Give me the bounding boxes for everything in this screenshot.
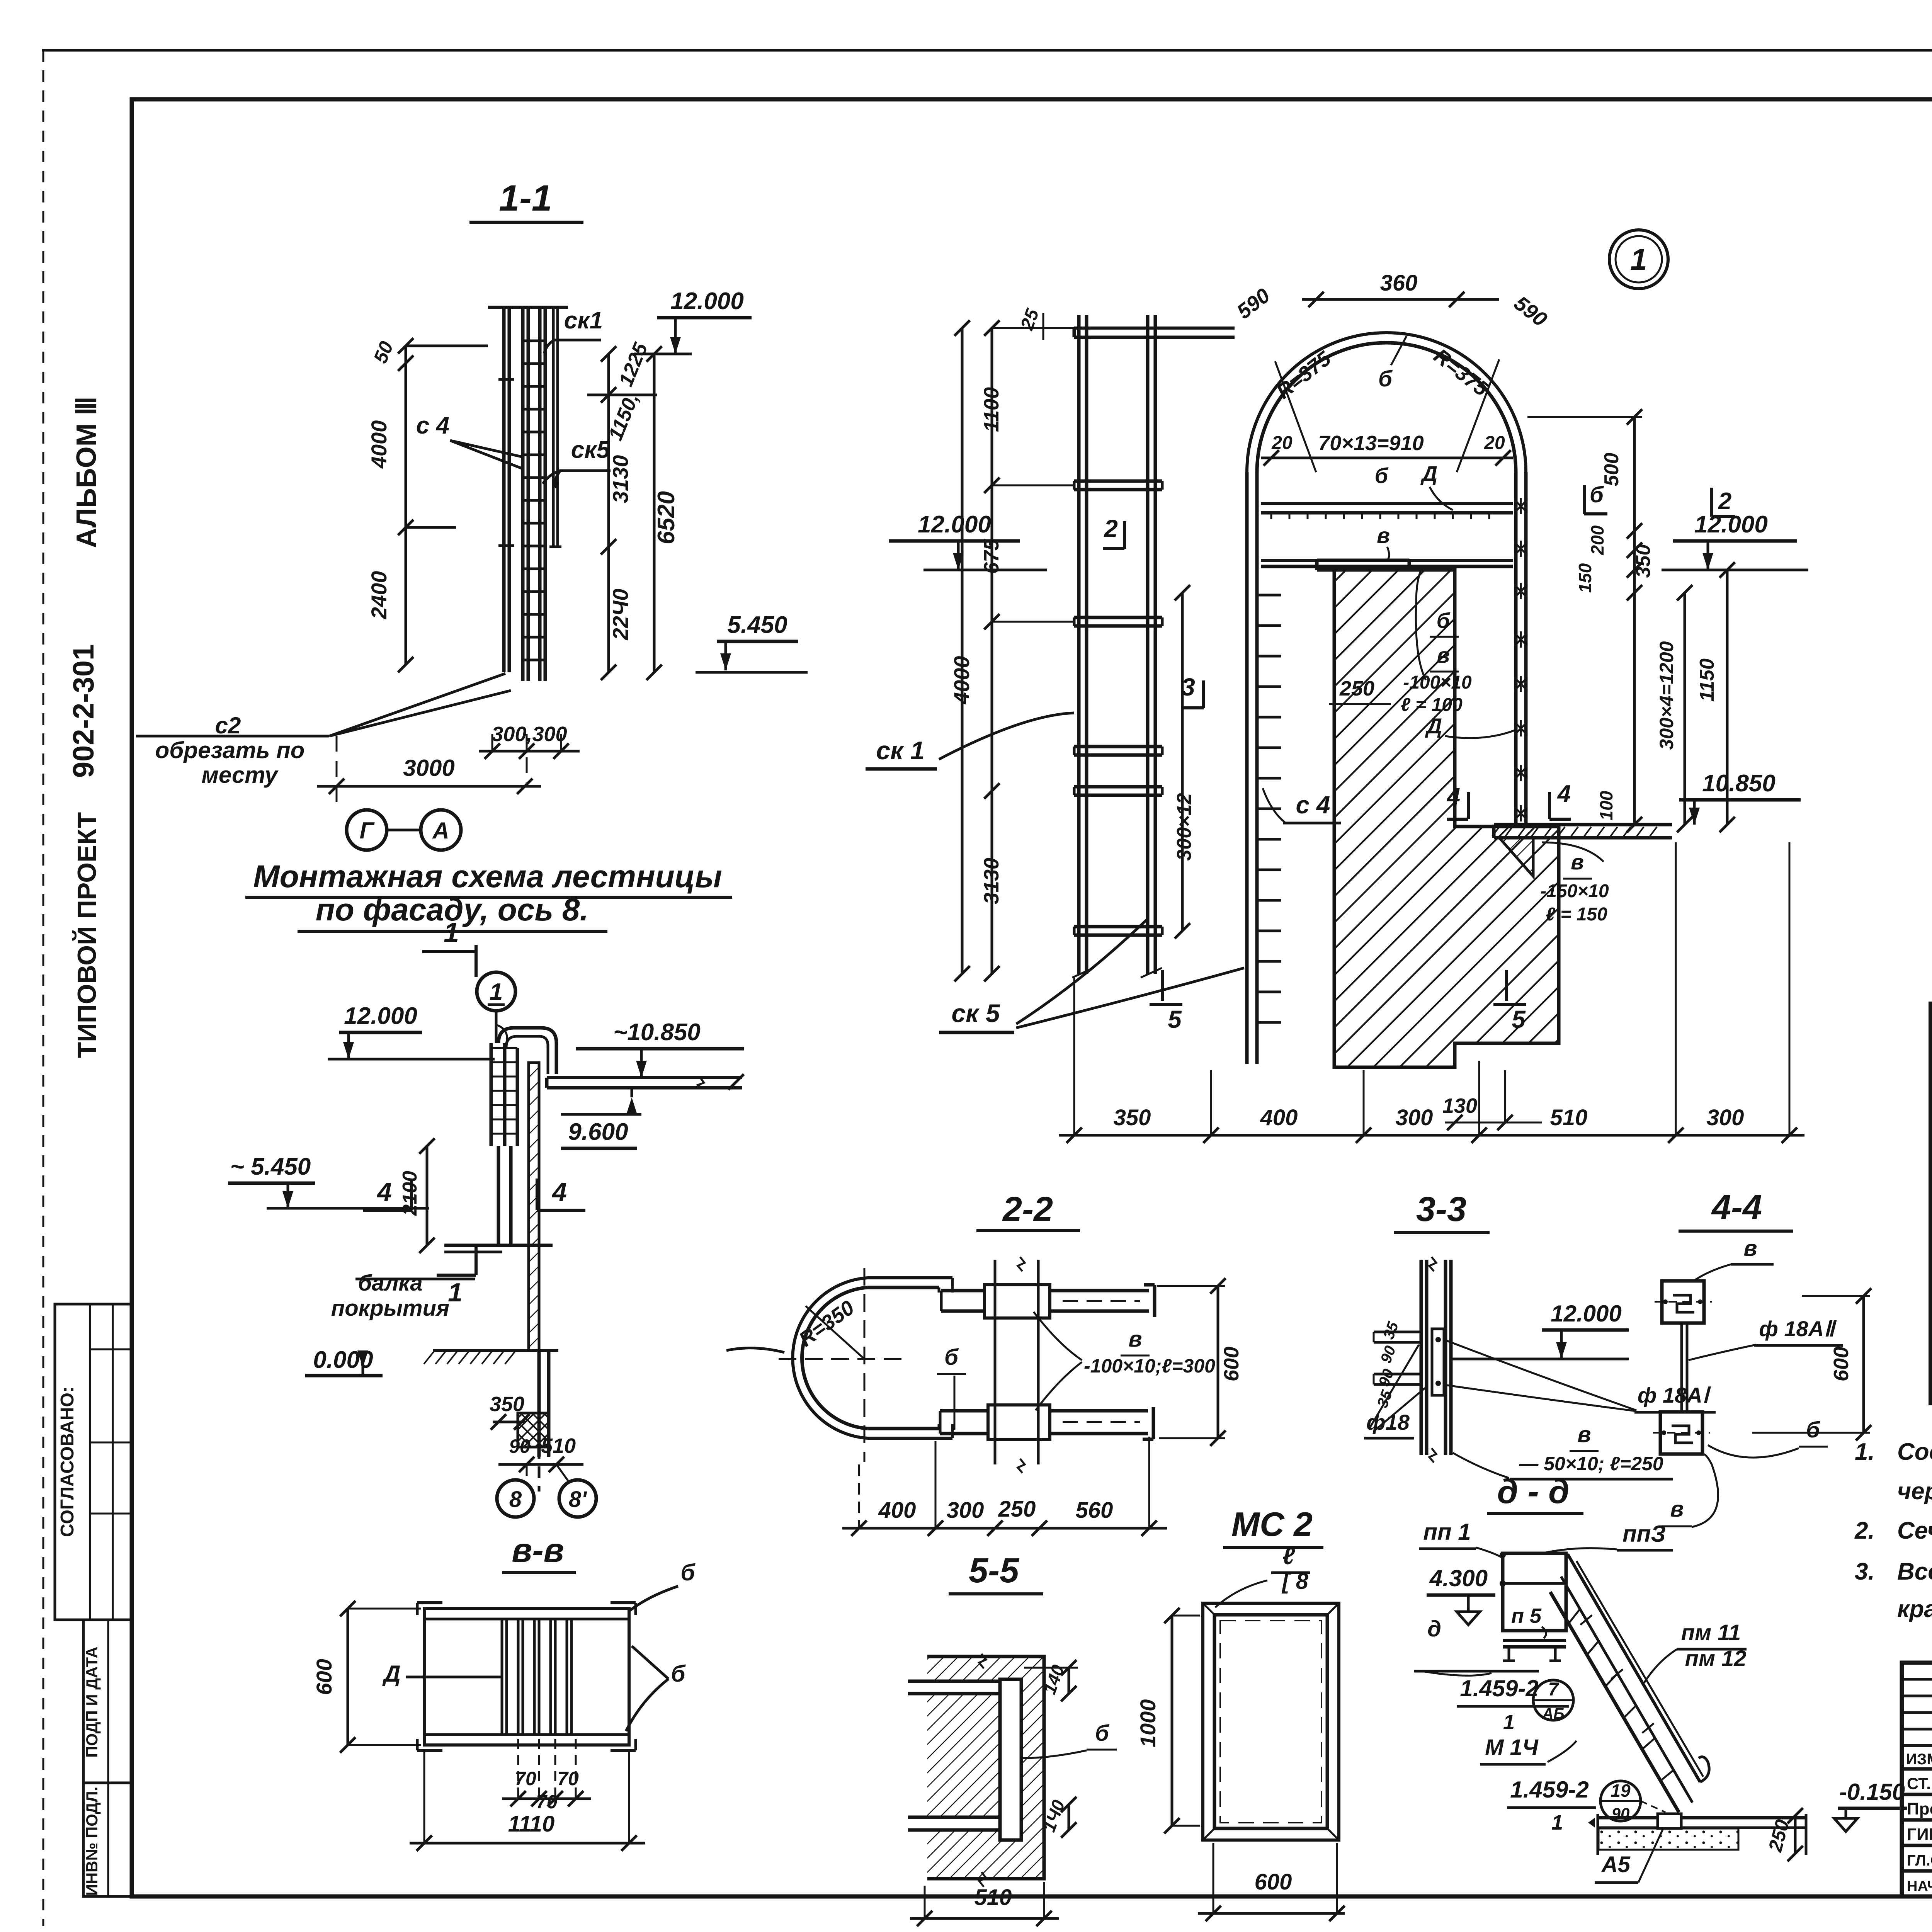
ground line and hatch — [433, 1349, 558, 1352]
4-4 top plate — [1662, 1281, 1704, 1323]
dim 300x12 along rungs — [1181, 593, 1184, 931]
svg-text:Сечение д-д замаркировано на: Сечение д-д замаркировано на листе КЖ- 4… — [1897, 1517, 1932, 1544]
svg-text:Д: Д — [1425, 714, 1442, 738]
svg-text:5.450: 5.450 — [727, 612, 787, 638]
svg-text:ℓ: ℓ — [1282, 1543, 1295, 1570]
svg-text:1000: 1000 — [1136, 1699, 1160, 1748]
svg-text:19: 19 — [1611, 1781, 1631, 1801]
svg-text:4-4: 4-4 — [1711, 1188, 1762, 1227]
svg-text:ск 1: ск 1 — [876, 736, 924, 765]
right dim chain inner — [1633, 417, 1636, 825]
svg-text:~10.850: ~10.850 — [613, 1019, 701, 1046]
elevation platform at 5.450 — [444, 1244, 553, 1247]
ladder 1-1 top cap line — [488, 306, 568, 309]
MC2 frame inner — [1214, 1615, 1327, 1828]
svg-text:-100×10: -100×10 — [1403, 672, 1472, 693]
hatched wall column — [1334, 570, 1559, 1067]
svg-text:250: 250 — [1764, 1817, 1793, 1854]
svg-text:510: 510 — [975, 1885, 1012, 1910]
svg-text:3130: 3130 — [608, 455, 633, 503]
d-d platform deck — [1503, 1639, 1566, 1642]
svg-text:1100: 1100 — [980, 387, 1003, 432]
svg-text:1: 1 — [448, 1278, 463, 1307]
svg-text:[ 8: [ 8 — [1281, 1569, 1308, 1594]
svg-text:ппЗ: ппЗ — [1622, 1521, 1666, 1547]
2-2 top side bars — [941, 1289, 985, 1293]
base ledge at 10.850 — [1494, 823, 1672, 827]
cage left rail — [1245, 472, 1249, 1064]
svg-text:4000: 4000 — [949, 656, 974, 705]
svg-text:350: 350 — [1632, 544, 1655, 578]
svg-text:300×4=1200: 300×4=1200 — [1656, 641, 1677, 750]
outer sheet border left dashed — [43, 50, 44, 1926]
svg-text:510: 510 — [1550, 1105, 1588, 1130]
MC2 frame dashed centerline — [1220, 1621, 1321, 1823]
elevation wall to ground — [529, 1349, 539, 1352]
4-4 dim 600 — [1862, 1296, 1865, 1433]
svg-text:400: 400 — [1260, 1105, 1298, 1130]
svg-text:600: 600 — [312, 1659, 336, 1695]
2-2 bottom dims 400 300 250 560 — [842, 1527, 1167, 1530]
dim chain left of ladder 1-1 — [405, 346, 407, 665]
cage right rail — [1514, 472, 1518, 825]
axis circle 8 — [526, 1464, 528, 1478]
section mark b right — [1583, 485, 1586, 514]
svg-text:Д: Д — [382, 1661, 400, 1687]
svg-text:М 1Ч: М 1Ч — [1485, 1735, 1539, 1760]
svg-text:90: 90 — [1378, 1344, 1400, 1366]
svg-text:4: 4 — [1446, 783, 1460, 810]
elevation section marks 4-4 — [363, 1209, 412, 1212]
4-4 connecting bar — [1680, 1323, 1683, 1412]
table spec grid — [1930, 1003, 1932, 1403]
d-d extra steps — [1580, 1615, 1592, 1625]
right dim 300x4=1200 — [1684, 593, 1686, 825]
support beam under platform — [1261, 559, 1513, 562]
3-3 channel member — [1420, 1260, 1423, 1455]
svg-text:300: 300 — [947, 1498, 984, 1523]
svg-text:Д: Д — [1420, 461, 1437, 486]
svg-text:~ 5.450: ~ 5.450 — [230, 1153, 311, 1180]
ladder 1-1 rungs — [523, 340, 545, 342]
cage rungs — [1257, 594, 1281, 597]
B-B corner end plates — [417, 1601, 442, 1604]
B-B frame outer channel — [424, 1609, 629, 1745]
elevation wall hatched strip — [529, 1063, 539, 1350]
svg-text:с2: с2 — [215, 713, 241, 738]
svg-text:130: 130 — [1442, 1094, 1477, 1117]
svg-text:350: 350 — [490, 1393, 524, 1416]
5-5 hatched wall block — [927, 1656, 1044, 1879]
svg-text:600: 600 — [1830, 1347, 1853, 1381]
svg-text:в: в — [1743, 1236, 1757, 1261]
svg-text:б: б — [1590, 482, 1604, 507]
svg-text:7: 7 — [1548, 1679, 1560, 1700]
2-2 dim 600 — [1217, 1286, 1219, 1438]
svg-text:902-2-301: 902-2-301 — [67, 644, 100, 778]
svg-text:20: 20 — [1484, 433, 1505, 453]
svg-text:50: 50 — [369, 338, 398, 366]
2-2 top clamp plate — [985, 1285, 1050, 1318]
axis circle G — [347, 810, 387, 850]
svg-text:ск1: ск1 — [564, 307, 603, 334]
cage arch outer — [1247, 333, 1526, 472]
cage arch inner — [1257, 343, 1516, 472]
svg-text:250: 250 — [998, 1497, 1036, 1522]
svg-text:Пров.: Пров. — [1907, 1799, 1932, 1818]
svg-text:чертежах АР.: чертежах АР. — [1897, 1478, 1932, 1505]
svg-text:балка: балка — [358, 1270, 422, 1296]
svg-text:3000: 3000 — [403, 755, 454, 781]
d-d flight bottom hook — [1699, 1757, 1709, 1782]
svg-text:1150,: 1150, — [604, 390, 643, 444]
ladder 1-1 cage rail right upper — [552, 307, 555, 547]
left dim chain of ladder view — [991, 328, 993, 974]
svg-text:510: 510 — [541, 1434, 576, 1458]
svg-text:22Ч0: 22Ч0 — [608, 588, 633, 640]
svg-text:Все металлоконструкции окрасит: Все металлоконструкции окрасить за 2 раз… — [1897, 1558, 1932, 1585]
svg-text:4.300: 4.300 — [1429, 1565, 1488, 1591]
ladder 1-1 stringer right — [538, 307, 542, 681]
MC2 frame outer — [1203, 1603, 1339, 1840]
svg-text:2: 2 — [1718, 488, 1731, 515]
svg-text:с 4: с 4 — [1296, 791, 1330, 819]
2-2 hoop straight parts — [867, 1276, 952, 1279]
svg-text:1: 1 — [444, 917, 459, 948]
svg-text:1: 1 — [1551, 1811, 1563, 1834]
svg-text:1.459-2: 1.459-2 — [1460, 1675, 1539, 1701]
svg-text:2400: 2400 — [367, 571, 391, 620]
svg-text:ск 5: ск 5 — [951, 999, 1000, 1027]
ladder side view straps — [1074, 480, 1162, 483]
svg-text:пм 11: пм 11 — [1681, 1620, 1741, 1645]
svg-text:в: в — [1437, 643, 1450, 667]
svg-text:-0.150: -0.150 — [1839, 1779, 1905, 1805]
ladder side view left rail pair — [1077, 315, 1081, 974]
svg-text:2-2: 2-2 — [1002, 1190, 1053, 1229]
svg-text:1.459-2: 1.459-2 — [1510, 1777, 1589, 1803]
5-5 top beam — [908, 1680, 1003, 1683]
svg-text:1225: 1225 — [615, 339, 653, 389]
svg-text:-100×10;ℓ=300: -100×10;ℓ=300 — [1084, 1355, 1215, 1377]
foundation column below ground — [537, 1350, 541, 1457]
svg-text:месту: месту — [201, 762, 279, 788]
d-d floor slab left — [1599, 1816, 1658, 1820]
ladder 1-1 cage rail left — [502, 307, 506, 672]
svg-text:АБ: АБ — [1542, 1705, 1564, 1722]
MC2 corner miters — [1203, 1603, 1214, 1615]
svg-text:5-5: 5-5 — [969, 1551, 1020, 1590]
svg-text:1110: 1110 — [508, 1811, 554, 1837]
dim 6520 outer line — [653, 354, 656, 672]
svg-text:ℓ = 150: ℓ = 150 — [1546, 904, 1607, 925]
svg-text:3.: 3. — [1855, 1558, 1875, 1585]
svg-text:б: б — [1806, 1417, 1821, 1442]
elevation ladder grid strip — [490, 1043, 493, 1146]
svg-text:12.000: 12.000 — [918, 511, 991, 538]
svg-text:560: 560 — [1076, 1498, 1113, 1523]
svg-text:R=375: R=375 — [1272, 347, 1335, 403]
4-4 bottom plate — [1660, 1412, 1702, 1454]
svg-text:90: 90 — [1612, 1804, 1630, 1823]
ladder 1-1 bottom cut leaders to label s2 — [329, 673, 505, 736]
elevation dim line 2100 — [426, 1146, 429, 1245]
MC2 dim 1000 — [1171, 1616, 1173, 1826]
d-d deck feet — [1508, 1647, 1510, 1661]
svg-text:б: б — [1378, 366, 1393, 391]
d-d floor end ticks — [1597, 1814, 1599, 1855]
svg-text:б: б — [944, 1345, 959, 1370]
svg-text:3130: 3130 — [980, 858, 1003, 904]
5-5 bottom beam — [908, 1816, 1003, 1819]
svg-text:п 5: п 5 — [1511, 1604, 1542, 1628]
svg-text:12.000: 12.000 — [344, 1003, 417, 1029]
svg-text:ТИПОВОЙ ПРОЕКТ: ТИПОВОЙ ПРОЕКТ — [72, 812, 102, 1058]
svg-text:600: 600 — [1255, 1869, 1292, 1895]
svg-text:ГИП: ГИП — [1907, 1825, 1932, 1844]
svg-text:4: 4 — [376, 1177, 392, 1207]
ladder 1-1 stringer left — [521, 307, 525, 681]
platform grating lines — [1261, 502, 1513, 505]
svg-text:ИНВ№ ПОДЛ.: ИНВ№ ПОДЛ. — [83, 1787, 101, 1896]
d-d foot step block — [1658, 1814, 1681, 1828]
2-2 bottom clamp plate — [988, 1405, 1050, 1439]
svg-text:250: 250 — [1339, 677, 1374, 700]
mid splice caps on rails — [498, 378, 514, 381]
3-3 rung stubs left — [1374, 1331, 1421, 1333]
svg-text:4: 4 — [1557, 781, 1571, 807]
rail bottom cut marks — [1072, 968, 1094, 978]
anchor star marks on right rail — [1515, 500, 1527, 512]
right dim 1150 — [1726, 570, 1729, 825]
svg-text:4: 4 — [551, 1177, 567, 1207]
svg-text:35: 35 — [1380, 1319, 1402, 1342]
svg-text:2.: 2. — [1854, 1517, 1875, 1544]
svg-text:3-3: 3-3 — [1416, 1190, 1466, 1229]
svg-text:100: 100 — [1596, 791, 1616, 820]
svg-text:500: 500 — [1600, 453, 1623, 486]
svg-text:300,300: 300,300 — [492, 723, 567, 746]
svg-text:1: 1 — [490, 979, 503, 1005]
d-d stair flight stringers — [1568, 1554, 1700, 1782]
5-5 channel plate — [1000, 1679, 1021, 1840]
svg-text:ск5: ск5 — [571, 437, 611, 463]
svg-text:МС 2: МС 2 — [1231, 1505, 1313, 1543]
svg-text:ИЗМ: ИЗМ — [1906, 1751, 1932, 1768]
svg-text:1: 1 — [1503, 1711, 1515, 1734]
svg-text:Монтажная схема лестницы: Монтажная схема лестницы — [253, 859, 722, 894]
outer dim 4000 — [961, 328, 964, 974]
svg-text:ф 18АⅡ: ф 18АⅡ — [1759, 1316, 1837, 1341]
svg-text:600: 600 — [1220, 1347, 1243, 1381]
svg-text:д - д: д - д — [1497, 1472, 1570, 1510]
svg-text:20: 20 — [1271, 433, 1293, 453]
svg-text:пм 12: пм 12 — [1685, 1646, 1747, 1671]
soglasovano block — [55, 1304, 132, 1620]
svg-text:обрезать по: обрезать по — [155, 737, 305, 763]
elevation axis circle 1 — [477, 972, 515, 1011]
svg-text:А: А — [432, 818, 449, 844]
svg-text:б: б — [671, 1661, 686, 1687]
svg-text:8: 8 — [509, 1487, 522, 1512]
svg-text:А5: А5 — [1601, 1852, 1631, 1877]
axis circle 1 top right — [1609, 230, 1668, 289]
2-2 bottom side bars — [940, 1409, 988, 1413]
2-2 hoop outer arc — [793, 1278, 867, 1438]
svg-text:в-в: в-в — [512, 1531, 564, 1569]
svg-text:АЛЬБОМ Ⅲ: АЛЬБОМ Ⅲ — [71, 396, 102, 548]
d-d floor slab right — [1681, 1816, 1806, 1820]
svg-text:350: 350 — [1114, 1105, 1151, 1130]
d-d concrete band — [1599, 1828, 1738, 1850]
svg-text:360: 360 — [1380, 270, 1418, 296]
svg-text:1150: 1150 — [1696, 658, 1718, 702]
2-2 ladder stringer verticals — [994, 1260, 997, 1464]
B-B dim 600 — [347, 1609, 349, 1745]
level line at 12.000 — [634, 353, 692, 355]
svg-text:покрытия: покрытия — [331, 1296, 449, 1321]
svg-text:400: 400 — [878, 1498, 916, 1523]
svg-text:б: б — [1375, 463, 1389, 488]
svg-text:-150×10: -150×10 — [1540, 881, 1609, 901]
svg-text:в: в — [1577, 1422, 1591, 1447]
d-d platform box — [1503, 1553, 1566, 1631]
svg-text:пп 1: пп 1 — [1423, 1519, 1471, 1545]
bottom dim line of central view — [1059, 1134, 1804, 1137]
2-2 leader from sk1 — [726, 1348, 784, 1352]
section mark 2 right — [1710, 488, 1713, 517]
title block outline — [1902, 1663, 1932, 1896]
d-d flight steps — [1569, 1609, 1580, 1623]
svg-text:675: 675 — [980, 539, 1003, 574]
svg-text:1: 1 — [1630, 242, 1647, 276]
svg-text:6520: 6520 — [653, 491, 680, 544]
section mark 5 right — [1505, 970, 1508, 1001]
svg-text:СОГЛАСОВАНО:: СОГЛАСОВАНО: — [57, 1386, 78, 1537]
svg-text:б: б — [1437, 608, 1451, 633]
svg-text:1.: 1. — [1855, 1439, 1875, 1465]
svg-text:ℓ = 100: ℓ = 100 — [1401, 695, 1463, 715]
axis circle A — [421, 810, 461, 850]
svg-text:краской БТ-177(ГОСТ 5631 -70*): краской БТ-177(ГОСТ 5631 -70*) . — [1897, 1596, 1932, 1622]
B-B inner bars — [501, 1619, 503, 1735]
svg-text:1-1: 1-1 — [499, 178, 552, 219]
ladder side view top bar — [1074, 327, 1235, 330]
dim chain right of ladder 1-1 — [607, 354, 610, 672]
d-d dim 250 — [1794, 1816, 1797, 1854]
svg-text:90: 90 — [509, 1435, 531, 1457]
svg-text:590: 590 — [1510, 291, 1551, 331]
elevation ladder lower stringers — [497, 1146, 500, 1245]
svg-text:б: б — [680, 1560, 696, 1585]
svg-text:в: в — [1571, 850, 1584, 874]
elevation cage hook top — [498, 1028, 556, 1074]
elevation section mark 1 — [437, 1274, 476, 1277]
svg-text:СТ. ИНЖ.: СТ. ИНЖ. — [1907, 1774, 1932, 1793]
svg-text:б: б — [1095, 1721, 1110, 1746]
inv podl table — [83, 1620, 132, 1896]
grating teeth — [1270, 513, 1272, 519]
5-5 dim 140 top — [1068, 1668, 1070, 1694]
svg-text:12.000: 12.000 — [1551, 1301, 1622, 1327]
svg-text:— 50×10; ℓ=250: — 50×10; ℓ=250 — [1519, 1453, 1663, 1475]
svg-text:70×13=910: 70×13=910 — [1318, 432, 1423, 455]
svg-text:Соединительный элемент МС 2 за: Соединительный элемент МС 2 замаркирован… — [1897, 1439, 1932, 1465]
5-5 zigzag cuts — [979, 1654, 986, 1668]
svg-text:12.000: 12.000 — [670, 288, 744, 315]
svg-text:в: в — [1377, 523, 1390, 548]
svg-text:4000: 4000 — [367, 420, 391, 469]
axis circle 8 prime — [556, 1464, 568, 1481]
svg-text:2: 2 — [1104, 515, 1118, 543]
svg-text:10.850: 10.850 — [1702, 770, 1776, 797]
svg-text:300: 300 — [1707, 1105, 1744, 1130]
svg-text:НАЧ. ОТД: НАЧ. ОТД — [1907, 1878, 1932, 1895]
outer sheet border top line — [42, 49, 1932, 52]
svg-text:с 4: с 4 — [416, 412, 449, 439]
svg-text:300: 300 — [1396, 1105, 1433, 1130]
svg-text:5: 5 — [1168, 1005, 1182, 1033]
svg-text:200: 200 — [1587, 525, 1607, 555]
svg-text:ПОДП И ДАТА: ПОДП И ДАТА — [83, 1646, 101, 1757]
svg-text:ГЛ.СПЕЦ.: ГЛ.СПЕЦ. — [1907, 1852, 1932, 1869]
axis extension dashed lines — [336, 736, 338, 811]
svg-text:590: 590 — [1233, 284, 1274, 323]
3-3 anchor plate — [1432, 1329, 1444, 1395]
d-d flight handrail extra line — [1577, 1561, 1703, 1777]
elevation roof slab — [547, 1076, 742, 1079]
column cap plate — [1317, 559, 1409, 562]
svg-text:д: д — [1427, 1616, 1441, 1641]
ladder side view right rail pair — [1146, 315, 1150, 974]
svg-text:в: в — [1670, 1497, 1684, 1522]
svg-text:300×12: 300×12 — [1173, 793, 1196, 861]
2-2 hoop inner arc — [802, 1287, 867, 1429]
5-5 dim 140 bottom — [1068, 1804, 1070, 1830]
svg-text:9.600: 9.600 — [568, 1119, 628, 1145]
svg-text:ф 18АⅠ: ф 18АⅠ — [1638, 1383, 1711, 1407]
section mark 5 left — [1161, 970, 1164, 1001]
svg-text:в: в — [1128, 1327, 1142, 1352]
svg-text:150: 150 — [1575, 563, 1595, 593]
svg-text:3: 3 — [1181, 673, 1195, 701]
svg-text:8': 8' — [569, 1487, 587, 1512]
knee bracket under ledge — [1499, 838, 1533, 876]
2-2 center lines — [864, 1268, 866, 1462]
svg-text:Г: Г — [360, 818, 375, 844]
